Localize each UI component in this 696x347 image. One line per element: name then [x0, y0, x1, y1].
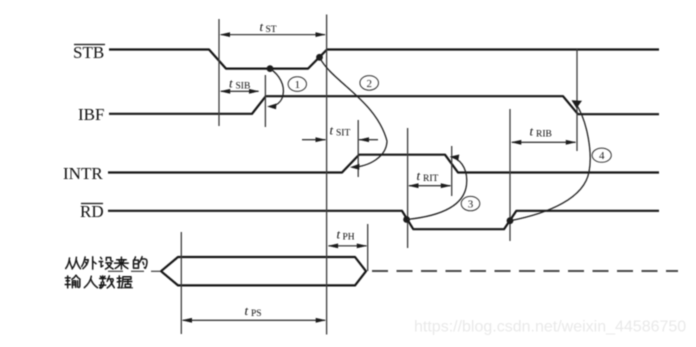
svg-text:t: t [245, 303, 249, 318]
reference line at bus right end (x=367.7) [367, 224, 369, 271]
svg-text:RIT: RIT [423, 174, 439, 184]
svg-text:t: t [229, 76, 233, 91]
data bus hexagon [161, 257, 366, 285]
causal curve 4 (RD rise to IBF fall) [510, 100, 590, 221]
svg-text:PS: PS [251, 309, 262, 319]
reference line at INTR fall (x=451.7) [451, 146, 453, 196]
circled number 1 [288, 77, 306, 92]
dimension t_PS [182, 303, 327, 323]
CJK char 从 [66, 257, 81, 269]
svg-text:t: t [260, 19, 264, 34]
reference line at bus start (x=181) [180, 232, 182, 334]
CJK char 入 [84, 276, 97, 287]
dimension t_ST [220, 19, 327, 37]
INTR waveform [108, 155, 659, 173]
svg-text:2: 2 [367, 78, 373, 90]
causal curve 1 (STB low to IBF rise) [267, 69, 283, 110]
STB waveform [109, 50, 659, 69]
circled number 3 [461, 196, 480, 210]
reference line at INTR rise (x=358.2) [357, 120, 359, 177]
leader dashes near label [108, 271, 160, 288]
CJK char 输 [65, 275, 80, 288]
svg-text:ST: ST [266, 25, 277, 35]
svg-text:RD: RD [80, 202, 104, 221]
dimension t_RIB [511, 124, 577, 145]
signal label IBF [78, 105, 104, 124]
CJK char 的 [134, 257, 147, 269]
svg-text:RIB: RIB [536, 130, 552, 140]
dimension t_RIT [408, 168, 451, 188]
CJK char 来 [115, 257, 129, 269]
RD waveform [108, 211, 659, 229]
reference line at IBF fall (x=576.7) [576, 50, 578, 152]
node dot on RD fall [403, 216, 410, 223]
reference line at RD rise (x=517) [509, 109, 511, 241]
reference line at RD fall (x=407.6) [407, 128, 409, 248]
causal curve 3 (RD fall to INTR fall) [407, 155, 467, 220]
CJK char 数 [100, 276, 115, 288]
signal label STB [73, 43, 105, 62]
dashed continuation line [372, 270, 678, 272]
svg-text:https://blog.csdn.net/weixin_4: https://blog.csdn.net/weixin_44586750 [414, 319, 686, 336]
svg-text:t: t [530, 124, 534, 139]
signal label INTR [63, 164, 103, 183]
IBF waveform [109, 96, 659, 114]
circled number 2 [360, 76, 379, 91]
svg-text:SIB: SIB [236, 82, 251, 92]
signal label RD [80, 202, 104, 221]
node dot on STB rise [316, 54, 323, 61]
CJK char 设 [99, 257, 113, 269]
tall reference line at STB rise (x=326.5) [326, 15, 328, 335]
svg-text:INTR: INTR [63, 164, 103, 183]
svg-text:SIT: SIT [336, 129, 350, 139]
svg-text:IBF: IBF [78, 105, 104, 124]
dimension t_SIB [220, 76, 260, 94]
circled number 4 [592, 148, 611, 162]
CJK char 外 [82, 257, 96, 269]
svg-text:PH: PH [343, 233, 355, 243]
svg-text:t: t [330, 123, 334, 138]
svg-text:STB: STB [73, 43, 104, 62]
svg-text:t: t [417, 168, 421, 183]
causal curve 2 (STB rise to INTR rise) [320, 57, 388, 170]
reference line at IBF rise top (x=264.7) [264, 75, 266, 127]
svg-text:1: 1 [295, 79, 301, 91]
svg-text:t: t [337, 227, 341, 242]
reference line at STB fall (x=219) [218, 19, 220, 126]
svg-text:4: 4 [599, 150, 605, 162]
node dot on STB low [267, 65, 274, 72]
node dot on RD rise [507, 217, 514, 224]
svg-text:3: 3 [468, 199, 474, 211]
dimension t_PH [328, 227, 368, 249]
CJK char 据 [117, 276, 132, 288]
dimension t_SIT (arrows outside) [302, 123, 378, 143]
